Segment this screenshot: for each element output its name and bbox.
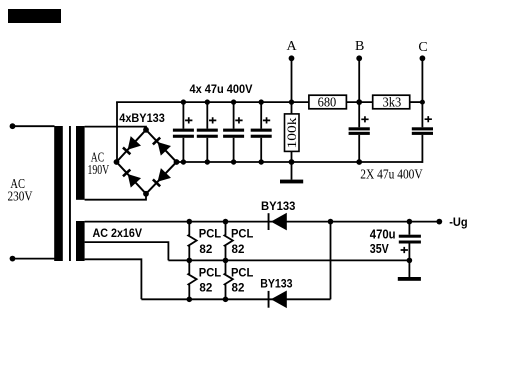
capacitor C5 47u at B — [349, 102, 370, 165]
capacitor C7 470u 35V — [399, 219, 421, 263]
wire mid rail — [168, 259, 409, 261]
wire top rail between 680 and 3k3 — [346, 101, 372, 103]
node A — [287, 39, 298, 105]
ground symbol under 470u — [398, 260, 421, 280]
svg-text:BY133: BY133 — [261, 199, 296, 213]
transformer T1 secondary 2x16V winding bar — [76, 221, 85, 261]
heater resistor PCL82 row2 left — [188, 260, 196, 299]
wire DC+ vertical from bridge left corner to top rail — [116, 102, 118, 162]
scan artifact black block top-left — [8, 9, 61, 23]
junction dot bottom rail left — [187, 297, 193, 303]
ground symbol under 100k — [280, 162, 303, 183]
heater resistor PCL82 row1 right — [224, 222, 232, 261]
junction dot mid rail right — [223, 258, 229, 264]
svg-text:82: 82 — [232, 281, 245, 295]
terminal dot -Ug — [436, 219, 442, 225]
transformer T1 primary winding bar — [54, 126, 63, 261]
junction dot diode output top — [328, 219, 334, 225]
svg-text:82: 82 — [199, 281, 212, 295]
svg-text:4xBY133: 4xBY133 — [119, 111, 165, 125]
resistor 100k — [284, 102, 299, 165]
svg-text:82: 82 — [199, 242, 212, 256]
svg-text:A: A — [287, 39, 298, 54]
node B junction dot on rail — [356, 99, 362, 105]
transformer T1 secondary 190V winding bar — [76, 126, 85, 200]
resistor 3k3 — [373, 95, 410, 110]
junction dot row1 right top — [223, 219, 229, 225]
capacitor C2 47u — [197, 99, 218, 164]
diode D2 BY133 bottom — [268, 291, 287, 309]
terminal dot primary bottom — [10, 256, 16, 262]
wire bottom rail — [141, 298, 330, 300]
wire mid tap step — [85, 242, 169, 260]
transformer T1 core line — [69, 126, 71, 261]
node B — [355, 39, 364, 102]
svg-text:230V: 230V — [8, 189, 33, 204]
wire bottom tap step — [85, 259, 142, 299]
heater resistor PCL82 row2 right — [224, 260, 232, 299]
wire lower secondary top rail to -Ug — [85, 221, 440, 223]
junction dot bottom rail right — [223, 297, 229, 303]
capacitor C4 47u — [251, 99, 272, 164]
svg-text:100k: 100k — [284, 117, 299, 149]
svg-text:190V: 190V — [88, 163, 110, 178]
wire secondary 190V bottom to bridge — [85, 194, 146, 200]
bridge corner dot top — [143, 127, 149, 133]
svg-text:B: B — [355, 39, 364, 54]
wire primary bottom — [13, 258, 55, 260]
wire primary top — [13, 125, 55, 127]
svg-text:3k3: 3k3 — [383, 95, 402, 110]
bridge rectifier diamond wires — [117, 130, 177, 194]
svg-text:2X 47u 400V: 2X 47u 400V — [360, 168, 422, 183]
junction dot row1 left top — [187, 219, 193, 225]
diode D1 BY133 top — [268, 213, 287, 231]
wire top rail right of 3k3 — [410, 101, 423, 103]
bridge corner dot left — [114, 159, 120, 165]
wire top rail left segment — [116, 101, 309, 103]
svg-text:PCL: PCL — [199, 267, 221, 279]
svg-text:C: C — [418, 40, 427, 55]
resistor 680 — [309, 95, 347, 110]
svg-text:470u: 470u — [370, 226, 396, 241]
svg-text:4x 47u 400V: 4x 47u 400V — [190, 82, 253, 96]
bridge diode top-right — [151, 135, 171, 155]
svg-text:PCL: PCL — [231, 229, 253, 241]
junction dot mid rail left — [187, 258, 193, 264]
svg-text:35V: 35V — [370, 241, 389, 256]
svg-text:AC 2x16V: AC 2x16V — [93, 226, 143, 240]
wire bottom rail — [177, 161, 423, 163]
svg-text:PCL: PCL — [231, 267, 253, 279]
wire secondary 190V top to bridge — [85, 127, 146, 130]
capacitor C1 47u — [173, 99, 194, 164]
svg-text:82: 82 — [232, 242, 245, 256]
bridge diode bottom-left — [121, 167, 141, 187]
terminal dot primary top — [10, 123, 16, 129]
bridge diode bottom-right — [151, 168, 171, 188]
svg-text:BY133: BY133 — [260, 277, 293, 291]
bridge corner dot bottom — [143, 191, 149, 197]
capacitor C6 47u at C — [412, 102, 433, 163]
capacitor C3 47u — [223, 99, 244, 164]
svg-text:-Ug: -Ug — [449, 215, 467, 229]
bridge corner dot right — [174, 159, 180, 165]
heater resistor PCL82 row1 left — [188, 222, 196, 261]
wire vertical joining diode outputs — [330, 222, 332, 300]
node C — [418, 40, 427, 104]
svg-text:PCL: PCL — [199, 229, 221, 241]
bridge diode top-left — [121, 136, 141, 156]
svg-text:680: 680 — [318, 95, 337, 110]
